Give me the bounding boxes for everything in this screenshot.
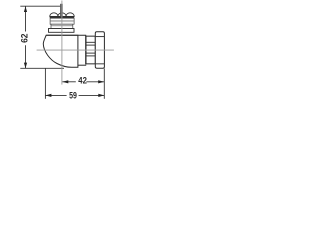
dimension line 42	[62, 81, 76, 83]
tail hex nut	[95, 32, 104, 68]
extension line left (59)	[44, 68, 46, 98]
union nut	[86, 36, 95, 64]
dimension 42 arrow right	[98, 80, 104, 83]
dimension 42 arrow left	[62, 80, 68, 83]
dimension line 62	[25, 6, 27, 31]
bonnet flange	[49, 29, 75, 33]
union nut thick left edge	[85, 36, 87, 65]
extension line bottom (62)	[20, 67, 64, 69]
dimension line 59	[45, 94, 66, 96]
valve stem	[60, 4, 63, 17]
extension line right (42/59)	[103, 68, 105, 98]
svg-text:59: 59	[69, 89, 77, 100]
dimension 62 arrow up	[24, 6, 27, 12]
svg-text:62: 62	[18, 34, 29, 43]
handwheel crown	[50, 13, 74, 17]
dimension 62 arrow down	[24, 63, 27, 69]
body top edge to outlet	[46, 34, 86, 36]
valve body	[43, 35, 78, 67]
horizontal centerline	[37, 49, 114, 51]
bonnet upper box groove lines	[50, 20, 74, 22]
outlet bottom edge	[78, 64, 86, 66]
extension line top (62)	[20, 5, 60, 7]
dimension 59 arrow left	[45, 94, 51, 97]
bonnet lower box groove line	[51, 25, 72, 27]
tail hex facet lines	[96, 36, 105, 38]
svg-text:42: 42	[78, 75, 87, 86]
vertical centerline	[61, 1, 63, 85]
dimension 59 arrow right	[98, 94, 104, 97]
handwheel base bar	[50, 16, 74, 18]
bonnet upper box	[50, 18, 74, 24]
union nut groove lines	[86, 41, 95, 43]
bonnet lower box	[51, 24, 73, 28]
